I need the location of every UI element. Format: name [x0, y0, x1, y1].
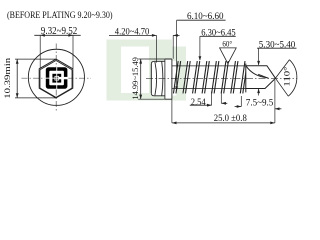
front view centerline vertical [55, 44, 57, 112]
logo embossed square mark [45, 66, 69, 90]
dim 4.20~4.70 [109, 26, 180, 62]
svg-text:10.39min: 10.39min [3, 58, 12, 99]
dim 2.54 pitch [190, 92, 228, 108]
side view hex head face [150, 64, 152, 93]
dim 25.0 overall length [172, 80, 275, 124]
svg-text:7.5~9.5: 7.5~9.5 [246, 98, 274, 109]
dim 9.32~9.52 line [34, 34, 80, 37]
neck white fill [172, 61, 177, 96]
side view hex flank arcs [155, 61, 163, 95]
drill point [246, 64, 276, 93]
thread helix zigzag [173, 61, 257, 93]
side view washer flange [165, 59, 172, 99]
hex head front view [39, 59, 73, 98]
hex chamfer inner rounded hexagon [40, 61, 72, 98]
svg-text:(BEFORE PLATING 9.20~9.30): (BEFORE PLATING 9.20~9.30) [7, 10, 113, 21]
head white fill [151, 61, 165, 96]
washer circle front view [28, 49, 84, 105]
svg-text:5.30~5.40: 5.30~5.40 [259, 39, 296, 50]
green highlight frame [107, 40, 187, 101]
front view centerline horizontal [22, 77, 92, 79]
washer white fill [165, 59, 172, 99]
svg-text:110°: 110° [282, 66, 292, 87]
dim 10.39min line [16, 59, 19, 98]
svg-text:14.99~15.49: 14.99~15.49 [131, 57, 140, 100]
svg-text:6.30~6.45: 6.30~6.45 [201, 28, 236, 39]
dim 7.5~9.5 point length [235, 96, 282, 110]
dim 14.99~15.49 washer diameter [131, 57, 165, 100]
side view centerline [146, 77, 297, 79]
side view head top ridge [151, 61, 165, 64]
dim 10.39min extension lines [15, 59, 56, 98]
dim 5.30~5.40 [257, 39, 296, 95]
dim 6.30~6.45 [199, 28, 236, 61]
side view head bottom ridge [151, 93, 165, 96]
110 degree angle symbol [275, 60, 296, 96]
svg-text:2.54: 2.54 [191, 97, 206, 108]
svg-text:60°: 60° [222, 39, 232, 49]
60 degree thread angle symbol [220, 39, 237, 64]
shank root lines [172, 66, 246, 89]
dim 9.32~9.52 extension lines [40, 35, 73, 68]
dim 6.10~6.60 [175, 11, 225, 91]
